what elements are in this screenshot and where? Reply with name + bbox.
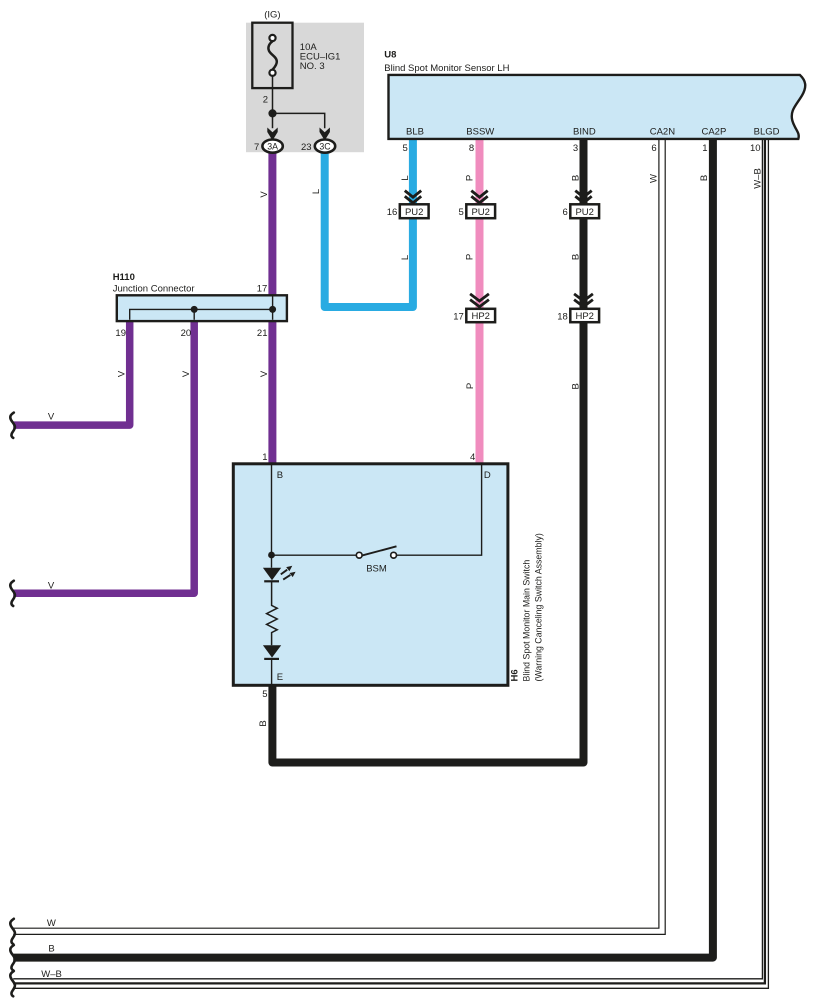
svg-text:(IG): (IG) — [264, 9, 280, 20]
wire B from U8 BIND to H6 pin 5 — [272, 139, 583, 763]
svg-text:HP2: HP2 — [575, 311, 593, 322]
svg-text:1: 1 — [262, 452, 267, 463]
svg-text:3: 3 — [573, 143, 578, 154]
svg-text:W–B: W–B — [753, 168, 764, 189]
H6 internal wire from pin 1 — [271, 464, 273, 555]
svg-text:6: 6 — [563, 207, 568, 218]
offpage connector at B wire — [10, 945, 15, 970]
wire L from 3C to U8 BLB — [325, 139, 413, 307]
offpage connector at W wire — [10, 919, 15, 944]
offpage connector at V wire y593 — [10, 581, 15, 606]
svg-text:19: 19 — [115, 328, 126, 339]
svg-text:U8: U8 — [384, 49, 396, 60]
svg-text:H6: H6 — [510, 669, 521, 681]
svg-text:3C: 3C — [319, 141, 331, 151]
svg-text:E: E — [277, 672, 283, 683]
svg-text:BIND: BIND — [573, 127, 596, 138]
svg-text:5: 5 — [262, 689, 267, 700]
offpage connector at V wire y425 — [10, 413, 15, 438]
svg-text:3A: 3A — [267, 141, 278, 151]
connector HP2 pin17 on P wire — [453, 294, 495, 322]
svg-text:P: P — [465, 175, 476, 181]
svg-text:(Warning Canceling Switch Asse: (Warning Canceling Switch Assembly) — [533, 533, 543, 681]
svg-text:B: B — [571, 254, 582, 260]
svg-text:2: 2 — [263, 95, 268, 106]
svg-text:20: 20 — [181, 328, 192, 339]
node dot — [268, 552, 275, 559]
svg-text:8: 8 — [469, 143, 474, 154]
svg-text:17: 17 — [453, 311, 464, 322]
node dot pin21 — [269, 306, 276, 313]
svg-text:PU2: PU2 — [471, 207, 489, 218]
svg-text:Blind Spot Monitor Sensor LH: Blind Spot Monitor Sensor LH — [384, 63, 509, 74]
svg-text:W: W — [47, 918, 56, 929]
svg-text:1: 1 — [702, 143, 707, 154]
wire B from U8 CA2P to bottom left — [13, 139, 713, 958]
svg-text:L: L — [311, 189, 322, 194]
switch BSM — [356, 552, 362, 558]
svg-text:B: B — [571, 175, 582, 181]
svg-text:L: L — [400, 175, 411, 180]
fuse 10A ECU-IG1 NO.3 body — [252, 23, 292, 88]
svg-text:PU2: PU2 — [405, 207, 423, 218]
wire from fuse pin 2 — [272, 76, 274, 114]
svg-text:NO. 3: NO. 3 — [300, 61, 325, 72]
svg-text:7: 7 — [254, 142, 259, 153]
resistor — [267, 581, 278, 645]
svg-text:4: 4 — [470, 452, 475, 463]
wire to 3C — [273, 113, 325, 128]
node junction dot — [268, 109, 276, 117]
arrow into 3C — [320, 128, 330, 141]
H110 internal bus — [130, 309, 273, 319]
node dot pin20 — [191, 306, 198, 313]
svg-text:B: B — [570, 383, 581, 389]
svg-text:5: 5 — [403, 143, 408, 154]
connector PU2 pin16 on BLB — [387, 191, 429, 219]
fuse element — [268, 41, 276, 69]
svg-text:CA2P: CA2P — [701, 127, 726, 138]
svg-text:W–B: W–B — [41, 969, 62, 980]
svg-text:P: P — [465, 383, 476, 389]
svg-text:16: 16 — [387, 207, 398, 218]
svg-text:V: V — [48, 412, 55, 423]
svg-text:6: 6 — [651, 143, 656, 154]
svg-text:V: V — [181, 370, 192, 377]
svg-text:CA2N: CA2N — [650, 127, 675, 138]
svg-text:D: D — [484, 470, 491, 481]
svg-text:17: 17 — [257, 283, 268, 294]
svg-text:BSSW: BSSW — [466, 127, 494, 138]
svg-text:Blind Spot Monitor Main Switch: Blind Spot Monitor Main Switch — [522, 560, 532, 682]
fuse block shaded area — [246, 23, 364, 153]
svg-text:18: 18 — [557, 311, 568, 322]
svg-text:V: V — [259, 370, 270, 377]
wire to 3A — [272, 113, 274, 128]
svg-text:PU2: PU2 — [575, 207, 593, 218]
svg-text:BSM: BSM — [366, 563, 387, 574]
svg-text:P: P — [465, 254, 476, 260]
svg-text:B: B — [258, 720, 269, 726]
wire P from U8 BSSW to H6 pin 4 — [476, 139, 484, 464]
wire to switch — [272, 554, 357, 556]
connector PU2 pin5 on BSSW — [459, 191, 496, 219]
wire V from H110 pin 19 to left edge — [13, 321, 130, 425]
wire V from H110 pin 20 to left edge — [13, 321, 194, 593]
svg-text:BLB: BLB — [406, 127, 424, 138]
H110 pin17-21 pass-through — [272, 297, 274, 320]
svg-text:B: B — [48, 944, 54, 955]
svg-text:V: V — [48, 581, 55, 592]
junction connector H110 — [117, 295, 287, 321]
svg-text:BLGD: BLGD — [754, 127, 780, 138]
svg-text:21: 21 — [257, 328, 268, 339]
svg-text:H110: H110 — [113, 272, 135, 283]
connector 3A — [262, 140, 282, 153]
LED indicator — [271, 555, 273, 568]
svg-text:HP2: HP2 — [471, 311, 489, 322]
svg-text:Junction Connector: Junction Connector — [113, 283, 195, 294]
wire W from U8 CA2N to bottom left — [13, 139, 659, 928]
svg-text:5: 5 — [459, 207, 464, 218]
svg-text:B: B — [699, 175, 710, 181]
diode — [263, 645, 281, 657]
wire W-B from U8 BLGD to bottom left — [13, 139, 762, 979]
svg-text:V: V — [116, 370, 127, 377]
arrow into 3A — [267, 128, 277, 141]
wire V from 3A to H6 pin 1 — [268, 150, 276, 464]
svg-text:10: 10 — [750, 143, 761, 154]
svg-text:L: L — [400, 255, 411, 260]
wire from switch to pin 4 — [397, 464, 482, 555]
connector 3C — [315, 140, 335, 153]
op box U8 Blind Spot Monitor Sensor LH — [389, 75, 806, 139]
svg-text:B: B — [277, 470, 283, 481]
svg-text:W: W — [649, 174, 660, 183]
connector PU2 pin6 on BIND — [563, 191, 600, 219]
svg-text:V: V — [259, 191, 270, 198]
offpage connector at W-B wire — [10, 971, 15, 996]
switch box H6 Blind Spot Monitor Main Switch — [233, 464, 508, 686]
svg-text:23: 23 — [301, 142, 312, 153]
connector HP2 pin18 on B wire — [557, 294, 599, 322]
